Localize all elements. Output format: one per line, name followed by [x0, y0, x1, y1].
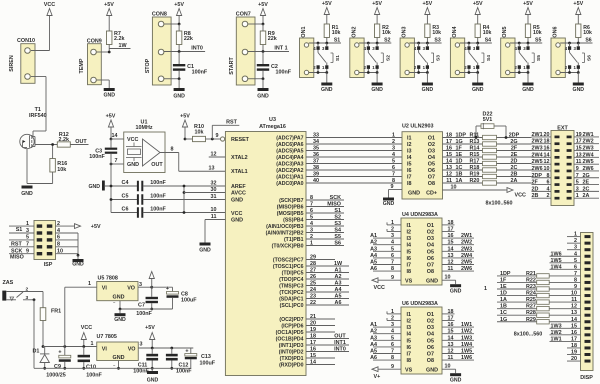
svg-text:10k: 10k	[432, 30, 441, 36]
svg-text:1: 1	[484, 286, 487, 292]
svg-text:GND: GND	[257, 94, 269, 100]
svg-text:I2: I2	[407, 142, 412, 148]
svg-text:GND: GND	[147, 378, 159, 384]
svg-text:A4: A4	[370, 253, 377, 259]
svg-text:2W5: 2W5	[583, 159, 594, 165]
svg-text:17: 17	[310, 340, 316, 346]
svg-text:1E: 1E	[456, 152, 463, 158]
svg-text:2W6: 2W6	[583, 166, 594, 172]
svg-text:1F: 1F	[456, 146, 463, 152]
svg-text:32: 32	[211, 181, 217, 187]
svg-text:START: START	[229, 57, 235, 75]
svg-text:27: 27	[310, 268, 316, 274]
svg-text:3: 3	[26, 295, 29, 301]
svg-text:18: 18	[310, 334, 316, 340]
svg-text:1W1: 1W1	[461, 322, 472, 328]
svg-text:I7: I7	[407, 263, 412, 269]
svg-text:2DP: 2DP	[509, 133, 520, 139]
svg-text:1D: 1D	[500, 291, 507, 297]
svg-text:O3: O3	[428, 149, 435, 155]
svg-text:9: 9	[391, 364, 394, 370]
svg-text:INT1: INT1	[334, 340, 346, 346]
svg-text:2: 2	[26, 287, 29, 293]
svg-text:OUT: OUT	[151, 162, 163, 168]
svg-text:1: 1	[310, 241, 313, 247]
svg-text:I8: I8	[407, 181, 412, 187]
svg-text:I4: I4	[407, 332, 412, 338]
svg-text:TEMP: TEMP	[79, 58, 85, 73]
svg-text:VCC: VCC	[127, 137, 138, 143]
svg-text:1W4: 1W4	[461, 342, 472, 348]
svg-text:S1: S1	[334, 37, 340, 43]
svg-text:15: 15	[310, 353, 316, 359]
svg-text:VO: VO	[128, 347, 136, 353]
svg-text:(TXD)PD1: (TXD)PD1	[280, 356, 304, 362]
svg-text:2W1: 2W1	[461, 233, 472, 239]
svg-text:1W3: 1W3	[551, 323, 562, 329]
svg-text:17: 17	[446, 139, 452, 145]
svg-text:I8: I8	[407, 358, 412, 364]
svg-text:2W4: 2W4	[461, 253, 472, 259]
svg-text:1DP: 1DP	[500, 271, 511, 277]
svg-text:(ADC3)PA3: (ADC3)PA3	[276, 162, 303, 168]
svg-text:I1: I1	[407, 223, 412, 229]
svg-text:10k: 10k	[57, 167, 66, 173]
svg-text:20: 20	[544, 132, 550, 138]
svg-text:2W2: 2W2	[461, 240, 472, 246]
svg-text:(ICP)PD6: (ICP)PD6	[281, 324, 303, 330]
svg-text:15: 15	[446, 152, 452, 158]
svg-text:1W3: 1W3	[461, 335, 472, 341]
svg-text:14: 14	[544, 152, 550, 158]
svg-text:O2: O2	[427, 319, 434, 325]
svg-text:2C: 2C	[511, 165, 518, 171]
svg-text:1D: 1D	[456, 159, 463, 165]
svg-text:(TOSC2)PC7: (TOSC2)PC7	[273, 258, 304, 264]
svg-text:+5V: +5V	[372, 1, 382, 7]
svg-text:2F: 2F	[532, 180, 539, 186]
svg-text:GND: GND	[231, 218, 243, 224]
svg-text:RST: RST	[226, 120, 237, 126]
svg-text:D1: D1	[33, 349, 40, 355]
svg-text:R27: R27	[526, 304, 536, 310]
svg-text:O2: O2	[427, 230, 434, 236]
svg-text:VCC: VCC	[515, 193, 526, 199]
svg-text:(TDO)PC4: (TDO)PC4	[279, 277, 304, 283]
svg-text:INT0: INT0	[334, 347, 346, 353]
svg-text:(T1)PB1: (T1)PB1	[284, 237, 304, 243]
svg-text:GND: GND	[173, 94, 185, 100]
svg-text:18: 18	[544, 139, 550, 145]
svg-text:+: +	[58, 349, 61, 355]
svg-text:C10: C10	[86, 365, 96, 371]
svg-text:S1: S1	[16, 227, 23, 233]
svg-text:VS: VS	[405, 279, 413, 285]
svg-text:33: 33	[313, 133, 319, 139]
svg-text:VCC: VCC	[231, 211, 242, 217]
svg-text:I7: I7	[407, 352, 412, 358]
svg-text:(OC1A)PD5: (OC1A)PD5	[276, 330, 304, 336]
svg-text:25: 25	[310, 281, 316, 287]
svg-text:S5: S5	[334, 234, 341, 240]
svg-text:100nF: 100nF	[176, 369, 192, 375]
svg-text:XTAL2: XTAL2	[231, 155, 248, 161]
svg-text:2G: 2G	[583, 173, 590, 179]
svg-text:100nF: 100nF	[150, 180, 166, 186]
svg-text:R25: R25	[526, 297, 536, 303]
svg-text:RST: RST	[11, 242, 22, 248]
svg-text:1000/25: 1000/25	[46, 373, 66, 379]
svg-text:8x100..560: 8x100..560	[486, 201, 513, 207]
svg-text:(ADC5)PA5: (ADC5)PA5	[276, 149, 303, 155]
svg-text:R17: R17	[470, 159, 480, 165]
svg-text:O8: O8	[427, 269, 434, 275]
svg-text:O5: O5	[427, 338, 434, 344]
svg-text:VCC: VCC	[374, 285, 385, 291]
svg-text:34: 34	[313, 139, 319, 145]
svg-text:1B: 1B	[500, 304, 507, 310]
svg-text:100uF: 100uF	[200, 361, 216, 367]
svg-text:ZAS: ZAS	[3, 280, 14, 286]
svg-text:I3: I3	[407, 236, 412, 242]
svg-text:(AIN0/INT2)PB2: (AIN0/INT2)PB2	[266, 231, 304, 237]
svg-text:(MISO)PB6: (MISO)PB6	[277, 205, 304, 211]
svg-text:O7: O7	[428, 175, 435, 181]
svg-text:I3: I3	[407, 325, 412, 331]
svg-text:5: 5	[392, 159, 395, 165]
svg-text:1F: 1F	[500, 277, 507, 283]
svg-text:2W6: 2W6	[532, 166, 543, 172]
svg-text:2W1: 2W1	[532, 132, 543, 138]
svg-text:A3: A3	[370, 246, 377, 252]
svg-text:R22: R22	[526, 277, 536, 283]
svg-text:15: 15	[576, 146, 582, 152]
svg-text:C6: C6	[122, 207, 129, 213]
svg-text:2W6: 2W6	[461, 266, 472, 272]
svg-text:VS: VS	[405, 368, 413, 374]
svg-text:+5V: +5V	[523, 1, 533, 7]
svg-text:30: 30	[211, 187, 217, 193]
svg-text:28: 28	[310, 261, 316, 267]
svg-text:35: 35	[313, 146, 319, 152]
svg-text:+5V: +5V	[174, 2, 184, 8]
svg-text:GND: GND	[408, 191, 420, 197]
svg-text:GND: GND	[72, 262, 84, 268]
svg-text:1: 1	[26, 221, 29, 227]
svg-text:2: 2	[392, 139, 395, 145]
svg-text:I7: I7	[407, 175, 412, 181]
svg-text:7: 7	[392, 172, 395, 178]
svg-text:GND: GND	[114, 317, 126, 323]
svg-text:U5 7808: U5 7808	[98, 276, 118, 282]
svg-text:(SDA)PC1: (SDA)PC1	[279, 297, 304, 303]
svg-text:I1: I1	[407, 136, 412, 142]
svg-text:I2: I2	[407, 230, 412, 236]
svg-text:9: 9	[216, 133, 219, 139]
svg-text:2: 2	[310, 234, 313, 240]
svg-text:3: 3	[26, 228, 29, 234]
svg-text:(INT1)PD3: (INT1)PD3	[279, 343, 304, 349]
svg-text:2G: 2G	[510, 139, 517, 145]
svg-text:10: 10	[544, 166, 550, 172]
svg-text:S4: S4	[486, 55, 492, 61]
svg-text:8x100...560: 8x100...560	[514, 332, 542, 338]
svg-text:I6: I6	[407, 168, 412, 174]
svg-text:10: 10	[445, 275, 451, 281]
svg-text:O8: O8	[428, 181, 435, 187]
svg-text:16: 16	[310, 347, 316, 353]
svg-text:GND: GND	[450, 377, 462, 383]
svg-text:2D: 2D	[511, 159, 518, 165]
svg-text:2W3: 2W3	[461, 246, 472, 252]
svg-text:O4: O4	[427, 243, 434, 249]
svg-text:A6: A6	[370, 266, 377, 272]
svg-text:10k: 10k	[332, 30, 341, 36]
svg-text:5: 5	[26, 235, 29, 241]
svg-text:(INT0)PD2: (INT0)PD2	[279, 350, 304, 356]
svg-text:S2: S2	[384, 37, 390, 43]
svg-text:7: 7	[310, 202, 313, 208]
svg-text:GND: GND	[573, 87, 585, 93]
svg-text:100nF: 100nF	[136, 311, 152, 317]
svg-text:3: 3	[140, 342, 143, 348]
svg-text:(OC1B)PD4: (OC1B)PD4	[276, 337, 304, 343]
svg-text:(ADC1)PA1: (ADC1)PA1	[276, 175, 303, 181]
svg-text:(RXD)PD0: (RXD)PD0	[279, 363, 304, 369]
svg-text:I4: I4	[407, 155, 412, 161]
svg-text:7: 7	[576, 173, 579, 179]
svg-text:GND: GND	[127, 162, 139, 168]
svg-text:1E: 1E	[500, 284, 507, 290]
svg-text:A2: A2	[370, 329, 377, 335]
svg-text:16: 16	[446, 146, 452, 152]
svg-text:+5V: +5V	[258, 2, 268, 8]
svg-text:A2: A2	[370, 240, 377, 246]
svg-text:1W6: 1W6	[551, 251, 562, 257]
svg-text:(TOSC1)PC6: (TOSC1)PC6	[273, 264, 304, 270]
svg-text:(TCK)PC2: (TCK)PC2	[279, 290, 303, 296]
svg-text:XTAL1: XTAL1	[231, 169, 248, 175]
svg-text:1C: 1C	[456, 165, 463, 171]
svg-text:INT0: INT0	[191, 46, 203, 52]
svg-text:100nF: 100nF	[86, 373, 102, 379]
svg-text:CD+: CD+	[426, 191, 437, 197]
svg-text:U4 UDN2983A: U4 UDN2983A	[402, 212, 438, 218]
svg-text:O5: O5	[427, 249, 434, 255]
svg-text:7: 7	[115, 158, 118, 164]
svg-text:22k: 22k	[268, 36, 277, 42]
svg-text:GND: GND	[426, 368, 438, 374]
svg-text:O6: O6	[427, 345, 434, 351]
svg-text:ISP: ISP	[44, 262, 53, 268]
svg-text:S4: S4	[485, 37, 491, 43]
svg-text:+5V: +5V	[573, 1, 583, 7]
svg-text:1W6: 1W6	[461, 355, 472, 361]
svg-text:VI: VI	[102, 347, 108, 353]
svg-text:SIREN: SIREN	[9, 55, 15, 72]
svg-text:1G: 1G	[456, 139, 463, 145]
svg-text:RESET: RESET	[231, 137, 250, 143]
svg-text:MISO: MISO	[10, 254, 24, 260]
svg-text:SCK: SCK	[330, 195, 341, 201]
svg-text:VI: VI	[102, 286, 108, 292]
svg-text:I6: I6	[407, 345, 412, 351]
svg-text:A1: A1	[370, 322, 377, 328]
svg-text:+5V: +5V	[423, 1, 433, 7]
svg-text:2A: 2A	[511, 178, 518, 184]
svg-text:A4: A4	[370, 342, 377, 348]
svg-text:(SCL)PC0: (SCL)PC0	[280, 303, 304, 309]
svg-text:6: 6	[392, 165, 395, 171]
svg-text:1DP: 1DP	[456, 133, 467, 139]
svg-text:13: 13	[576, 152, 582, 158]
svg-text:11: 11	[446, 178, 452, 184]
svg-text:GND: GND	[522, 87, 534, 93]
svg-text:6: 6	[547, 180, 550, 186]
svg-text:GND: GND	[103, 93, 115, 99]
svg-text:O3: O3	[427, 325, 434, 331]
svg-text:100nF: 100nF	[150, 207, 166, 213]
svg-text:1W: 1W	[118, 43, 127, 49]
svg-text:39: 39	[313, 172, 319, 178]
svg-text:22k: 22k	[184, 36, 193, 42]
svg-text:GND: GND	[89, 184, 101, 190]
svg-text:STOP: STOP	[145, 58, 151, 73]
svg-text:5: 5	[576, 180, 579, 186]
svg-text:4: 4	[547, 186, 550, 192]
svg-text:U7 7805: U7 7805	[97, 334, 117, 340]
svg-text:10k: 10k	[583, 30, 592, 36]
svg-text:I5: I5	[407, 338, 412, 344]
svg-text:O6: O6	[427, 256, 434, 262]
svg-text:+5V: +5V	[145, 325, 155, 331]
svg-text:R18: R18	[470, 165, 480, 171]
svg-text:10k: 10k	[533, 30, 542, 36]
svg-text:(ADC6)PA6: (ADC6)PA6	[276, 142, 303, 148]
svg-text:5V1: 5V1	[483, 117, 493, 123]
svg-text:S3: S3	[434, 37, 440, 43]
svg-text:10k: 10k	[483, 30, 492, 36]
svg-text:C13: C13	[201, 354, 211, 360]
svg-text:18: 18	[446, 133, 452, 139]
svg-text:1: 1	[91, 341, 94, 347]
svg-text:2W5: 2W5	[461, 260, 472, 266]
svg-text:2C: 2C	[583, 186, 590, 192]
svg-text:9: 9	[26, 249, 29, 255]
svg-text:U3: U3	[269, 117, 276, 123]
svg-text:GND: GND	[371, 87, 383, 93]
svg-text:(OC2)PD7: (OC2)PD7	[279, 317, 303, 323]
svg-text:10k: 10k	[195, 130, 204, 136]
svg-text:I5: I5	[407, 249, 412, 255]
svg-text:1: 1	[392, 133, 395, 139]
svg-text:2W4: 2W4	[532, 152, 543, 158]
svg-text:8: 8	[171, 147, 174, 153]
svg-text:O2: O2	[428, 142, 435, 148]
svg-text:AREF: AREF	[231, 184, 246, 190]
svg-text:21: 21	[310, 314, 316, 320]
svg-text:GND: GND	[426, 279, 438, 285]
svg-text:A2: A2	[335, 274, 342, 280]
svg-text:C5: C5	[122, 194, 129, 200]
svg-text:GND: GND	[199, 248, 211, 254]
svg-text:1W5: 1W5	[461, 349, 472, 355]
svg-text:1: 1	[576, 193, 579, 199]
svg-text:2D: 2D	[532, 186, 539, 192]
svg-text:1B: 1B	[456, 172, 463, 178]
svg-text:(SS)PB4: (SS)PB4	[283, 218, 304, 224]
svg-text:S6: S6	[587, 55, 593, 61]
svg-text:2B: 2B	[511, 172, 518, 178]
svg-text:100nF: 100nF	[192, 70, 208, 76]
svg-text:R29: R29	[526, 317, 536, 323]
svg-text:R23: R23	[526, 284, 536, 290]
svg-text:I1: I1	[407, 312, 412, 318]
svg-text:S2: S2	[334, 215, 341, 221]
svg-text:(SCK)PB7: (SCK)PB7	[279, 198, 304, 204]
svg-text:O3: O3	[427, 236, 434, 242]
svg-text:O7: O7	[427, 263, 434, 269]
svg-text:12: 12	[211, 152, 217, 158]
svg-text:2W2: 2W2	[532, 139, 543, 145]
svg-text:1G: 1G	[500, 317, 507, 323]
svg-text:3: 3	[576, 186, 579, 192]
svg-text:A6: A6	[370, 355, 377, 361]
svg-text:GND: GND	[231, 198, 243, 204]
svg-text:11: 11	[576, 159, 582, 165]
svg-text:1W5: 1W5	[551, 258, 562, 264]
svg-text:+5V: +5V	[322, 1, 332, 7]
svg-text:A5: A5	[370, 349, 377, 355]
svg-text:10: 10	[451, 185, 457, 191]
svg-text:36: 36	[313, 152, 319, 158]
svg-text:+5V: +5V	[473, 1, 483, 7]
svg-text:2E: 2E	[583, 180, 590, 186]
svg-text:AVCC: AVCC	[231, 191, 246, 197]
svg-text:OUT: OUT	[334, 334, 346, 340]
svg-text:+5V: +5V	[180, 114, 190, 120]
svg-text:2A: 2A	[583, 193, 590, 199]
svg-text:40: 40	[313, 178, 319, 184]
svg-text:+5V: +5V	[106, 114, 116, 120]
svg-text:U6 UDN2983A: U6 UDN2983A	[402, 301, 438, 307]
svg-text:FR1: FR1	[51, 309, 61, 315]
svg-text:S3: S3	[334, 221, 341, 227]
svg-text:(TMS)PC3: (TMS)PC3	[279, 284, 304, 290]
svg-text:O4: O4	[427, 332, 434, 338]
svg-text:29: 29	[310, 255, 316, 261]
svg-text:(ADC4)PA4: (ADC4)PA4	[276, 155, 303, 161]
svg-text:26: 26	[310, 274, 316, 280]
svg-text:1C: 1C	[500, 310, 507, 316]
svg-text:13: 13	[446, 165, 452, 171]
svg-text:IRF540: IRF540	[29, 113, 47, 119]
svg-text:24: 24	[310, 287, 316, 293]
svg-text:(ADC2)PA2: (ADC2)PA2	[276, 168, 303, 174]
svg-text:12: 12	[544, 159, 550, 165]
svg-text:3: 3	[310, 228, 313, 234]
svg-text:I2: I2	[407, 319, 412, 325]
svg-text:O8: O8	[427, 358, 434, 364]
svg-text:22: 22	[310, 300, 316, 306]
svg-text:16: 16	[544, 146, 550, 152]
svg-text:1A: 1A	[456, 178, 463, 184]
svg-text:37: 37	[313, 159, 319, 165]
svg-text:U2 ULN2903: U2 ULN2903	[402, 124, 433, 130]
svg-text:9: 9	[391, 275, 394, 281]
svg-text:S6: S6	[585, 37, 591, 43]
svg-text:7: 7	[26, 242, 29, 248]
